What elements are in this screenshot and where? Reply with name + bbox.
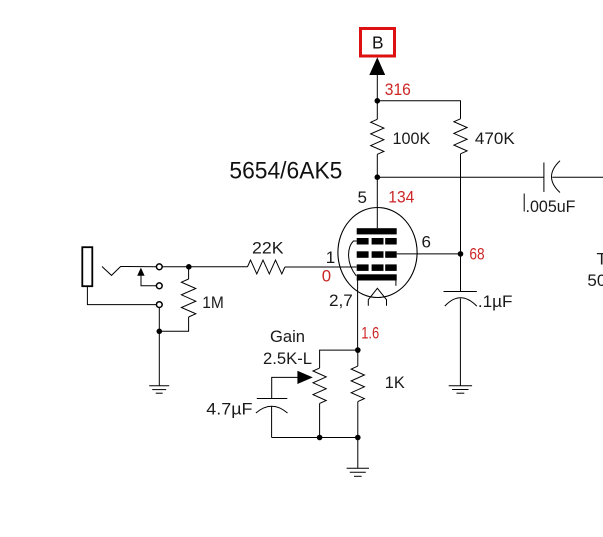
svg-text:500K: 500K bbox=[587, 271, 603, 290]
wire plate node into tube bbox=[376, 177, 378, 228]
cathode right stub bbox=[395, 281, 397, 286]
tube cathode bar bbox=[357, 274, 397, 280]
switch arrow bbox=[137, 268, 144, 276]
tube grid row 1 bbox=[357, 238, 397, 245]
contact circle top bbox=[156, 264, 162, 270]
wire B arrow to node 316 bbox=[376, 66, 378, 119]
svg-text:Gain: Gain bbox=[270, 327, 305, 346]
ground (right) bbox=[449, 386, 472, 393]
svg-text:134: 134 bbox=[388, 187, 414, 206]
tube plate bar bbox=[357, 228, 397, 234]
grid side arc bbox=[349, 241, 357, 276]
resistor 470K bbox=[454, 119, 467, 154]
node 316 junction bbox=[375, 98, 381, 104]
heater filament bbox=[368, 288, 386, 306]
grid node junction bbox=[186, 264, 192, 270]
wire 22K to tube grid bbox=[285, 266, 357, 268]
svg-text:0: 0 bbox=[322, 266, 331, 285]
switch arrow stem to middle contact bbox=[141, 275, 156, 286]
svg-text:22K: 22K bbox=[252, 238, 284, 257]
svg-text:4.7µF: 4.7µF bbox=[206, 400, 252, 419]
bottom rail wire bbox=[272, 437, 358, 439]
resistor 100K bbox=[371, 119, 384, 154]
input jack J1 bbox=[82, 247, 92, 286]
svg-text:5654/6AK5: 5654/6AK5 bbox=[229, 157, 342, 184]
wire plate node to coupling cap bbox=[377, 176, 543, 178]
svg-text:316: 316 bbox=[385, 80, 411, 99]
svg-text:68: 68 bbox=[469, 245, 484, 264]
svg-text:.005uF: .005uF bbox=[526, 197, 576, 216]
wire rail to ground bbox=[357, 438, 359, 469]
svg-text:.1µF: .1µF bbox=[478, 292, 513, 311]
svg-text:5: 5 bbox=[358, 188, 367, 207]
rail junction right bbox=[355, 435, 361, 441]
node B terminal box bbox=[361, 29, 395, 57]
wire .1uF to ground bbox=[459, 299, 461, 386]
svg-text:1: 1 bbox=[326, 248, 335, 267]
svg-text:1.6: 1.6 bbox=[361, 324, 379, 343]
rail junction left bbox=[317, 435, 323, 441]
B+ arrow bbox=[369, 57, 385, 75]
tube U1 5654/6AK5 envelope bbox=[338, 208, 417, 298]
screen node junction bbox=[458, 251, 464, 257]
cathode node junction bbox=[355, 347, 361, 353]
wire 4.7uF to bottom rail bbox=[271, 406, 273, 437]
svg-text:1M: 1M bbox=[202, 293, 224, 312]
resistor 1K bbox=[357, 350, 359, 366]
wire cathode node to pot bbox=[320, 350, 358, 368]
pin 6 wire to screen node bbox=[397, 253, 461, 255]
ground (center) bbox=[347, 468, 369, 476]
cathode lead down bbox=[357, 281, 359, 351]
1K bottom lead bbox=[357, 402, 359, 438]
potentiometer Gain 2.5K-L bbox=[313, 368, 326, 403]
tube grid row 2 bbox=[357, 251, 397, 257]
svg-text:B: B bbox=[372, 33, 384, 53]
svg-text:100K: 100K bbox=[393, 129, 431, 148]
svg-text:6: 6 bbox=[422, 233, 431, 252]
jack tip contact bbox=[102, 267, 156, 276]
svg-text:1K: 1K bbox=[385, 373, 406, 392]
capacitor .1uF bbox=[444, 292, 513, 311]
jack sleeve wire to lower contact bbox=[87, 287, 156, 305]
contact circle middle bbox=[156, 283, 162, 289]
resistor 1M bbox=[188, 267, 190, 279]
coupling capacitor .005uF bbox=[524, 161, 603, 216]
wire 100K bottom to plate node bbox=[376, 154, 378, 177]
resistor 22K bbox=[247, 260, 285, 274]
svg-text:470K: 470K bbox=[475, 129, 515, 148]
svg-text:2.5K-L: 2.5K-L bbox=[263, 349, 312, 368]
pot wiper arrow bbox=[297, 371, 312, 384]
svg-text:2,7: 2,7 bbox=[329, 291, 353, 310]
svg-text:To: To bbox=[597, 250, 603, 269]
tube grid row 3 bbox=[357, 264, 397, 271]
wiper wire bbox=[272, 377, 298, 398]
contact circle bottom bbox=[156, 302, 162, 308]
wire top contact to grid bbox=[162, 266, 247, 268]
plate node junction bbox=[375, 174, 381, 180]
wire 470K bottom down to screen node bbox=[460, 154, 462, 292]
capacitor 4.7uF bbox=[206, 399, 287, 419]
wire bottom contact to ground node bbox=[158, 308, 160, 386]
ground (left) bbox=[149, 386, 169, 393]
pot bottom lead bbox=[319, 403, 321, 437]
1M bottom lead bbox=[159, 317, 188, 331]
wire node 316 to 470K top bbox=[377, 101, 460, 119]
input ground node junction bbox=[157, 329, 163, 335]
